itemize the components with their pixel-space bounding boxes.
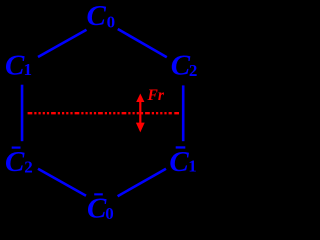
node Fr arrow xyxy=(136,94,145,133)
svg-text:1: 1 xyxy=(24,60,33,79)
node C2bar xyxy=(5,146,33,178)
svg-text:C: C xyxy=(5,49,25,81)
wire edge C2-C1bar (right vertical) xyxy=(182,85,185,141)
wire edge C0-C1 xyxy=(38,30,87,57)
svg-text:Fr: Fr xyxy=(147,87,165,104)
node C1bar xyxy=(169,146,196,178)
svg-text:C: C xyxy=(87,192,107,224)
svg-text:0: 0 xyxy=(105,204,114,223)
wire edge C2bar-C0bar xyxy=(38,169,86,196)
node C0bar xyxy=(87,192,114,224)
svg-text:2: 2 xyxy=(24,157,33,176)
node C0 xyxy=(87,0,116,32)
node C1 xyxy=(5,49,32,81)
svg-text:C: C xyxy=(5,146,25,178)
node C2 xyxy=(171,50,198,82)
svg-text:2: 2 xyxy=(189,61,198,80)
svg-text:1: 1 xyxy=(188,156,197,175)
svg-text:C: C xyxy=(171,50,191,82)
svg-text:C: C xyxy=(169,146,189,178)
wire edge C1bar-C0bar xyxy=(118,169,166,196)
svg-text:0: 0 xyxy=(107,13,116,32)
node Fr dotted level line xyxy=(28,112,172,114)
svg-text:C: C xyxy=(87,0,107,32)
wire edge C1-C2bar (left vertical) xyxy=(21,85,24,142)
wire edge C0-C2 xyxy=(118,29,167,57)
